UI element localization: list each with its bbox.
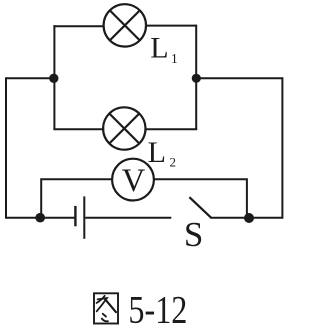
node D (switch-voltmeter junction) xyxy=(244,213,254,223)
node C (battery-voltmeter junction) xyxy=(35,213,45,223)
lamp L2 xyxy=(103,107,145,149)
switch S blade xyxy=(189,197,211,218)
node B (right junction) xyxy=(192,74,201,83)
wire right branch vertical xyxy=(195,25,197,130)
wire left outer loop xyxy=(6,78,75,218)
svg-text:1: 1 xyxy=(171,51,178,66)
wire left branch vertical xyxy=(53,25,55,129)
svg-text:L: L xyxy=(148,136,166,169)
svg-text:L: L xyxy=(150,32,168,65)
node A (left junction) xyxy=(49,74,58,83)
battery cell: short negative plate xyxy=(74,206,76,226)
wire L2 right lead xyxy=(146,128,198,130)
svg-text:V: V xyxy=(122,163,146,199)
caption character 图 (drawn strokes) xyxy=(94,293,118,323)
wire voltmeter branch right xyxy=(154,179,247,218)
wire voltmeter branch left xyxy=(41,179,112,218)
wire battery to switch contact xyxy=(85,217,171,219)
svg-text:5-12: 5-12 xyxy=(128,287,187,327)
wire L1 right lead xyxy=(146,25,197,27)
wire right outer loop xyxy=(196,78,282,218)
wire L1 left lead xyxy=(53,25,104,27)
battery cell: long positive plate xyxy=(83,196,85,238)
wire L2 left lead xyxy=(53,128,104,130)
lamp L1 xyxy=(104,4,146,46)
wire switch to right node xyxy=(211,217,251,219)
svg-text:S: S xyxy=(184,215,203,254)
svg-text:2: 2 xyxy=(170,154,177,169)
voltmeter V xyxy=(112,159,154,201)
